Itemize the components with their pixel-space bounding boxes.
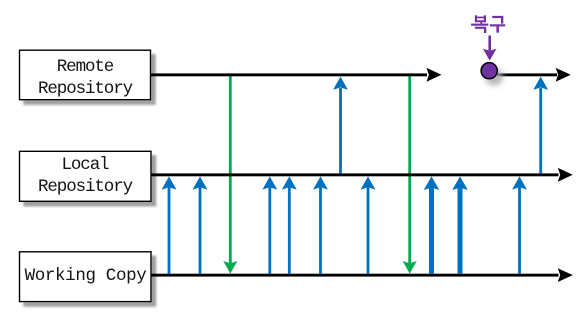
- svg-text:Working Copy: Working Copy: [25, 266, 147, 286]
- svg-text:Local: Local: [61, 155, 109, 175]
- svg-text:Repository: Repository: [38, 79, 133, 99]
- svg-text:Repository: Repository: [38, 177, 133, 197]
- svg-text:Remote: Remote: [57, 57, 114, 77]
